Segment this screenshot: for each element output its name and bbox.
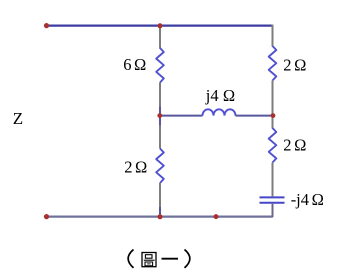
wire inductor branch left xyxy=(160,115,203,117)
svg-text:6Ω: 6Ω xyxy=(123,55,146,74)
wire middle branch between R1 and node xyxy=(159,83,161,108)
wire middle branch lead to R2 xyxy=(159,125,161,149)
wire right branch between R3 and node xyxy=(272,81,274,129)
terminal dot bottom left xyxy=(44,214,49,219)
node dot bottom middle xyxy=(158,214,163,219)
wire bottom horizontal xyxy=(47,216,273,218)
svg-text:Z: Z xyxy=(13,109,23,128)
resistor R1 6ohm xyxy=(156,48,164,83)
caption character yi (one) xyxy=(162,258,179,260)
wire node stub middle xyxy=(159,107,161,125)
wire below capacitor xyxy=(272,204,274,217)
wire middle branch lower lead xyxy=(159,183,161,207)
terminal dot top left xyxy=(44,23,49,28)
wire right branch upper lead xyxy=(272,25,274,47)
node dot right of inductor xyxy=(271,113,276,118)
resistor R3 2ohm upper right xyxy=(269,46,277,81)
svg-text:j4Ω: j4Ω xyxy=(205,86,235,105)
wire top horizontal xyxy=(47,25,273,27)
node dot bottom wire xyxy=(214,214,219,219)
caption left paren xyxy=(128,250,133,268)
resistor R4 2ohm lower right xyxy=(269,128,277,163)
resistor R2 2ohm middle xyxy=(156,149,164,184)
svg-text:2Ω: 2Ω xyxy=(283,56,306,75)
wire right branch lead to C1 xyxy=(272,163,274,197)
svg-text:-j4Ω: -j4Ω xyxy=(291,190,324,209)
wire middle branch upper lead xyxy=(159,27,161,49)
node dot middle left of inductor xyxy=(157,113,162,118)
wire inductor branch right xyxy=(236,115,273,117)
caption character tu (figure) xyxy=(142,253,156,267)
capacitor C1 plate bottom xyxy=(260,202,285,204)
node dot top middle xyxy=(158,23,163,28)
svg-text:2Ω: 2Ω xyxy=(124,158,147,177)
wire stub to bottom node xyxy=(159,207,161,216)
caption right paren xyxy=(185,250,190,268)
svg-text:2Ω: 2Ω xyxy=(283,136,306,155)
capacitor C1 plate top xyxy=(260,196,285,198)
inductor L1 j4ohm coil xyxy=(203,109,236,115)
